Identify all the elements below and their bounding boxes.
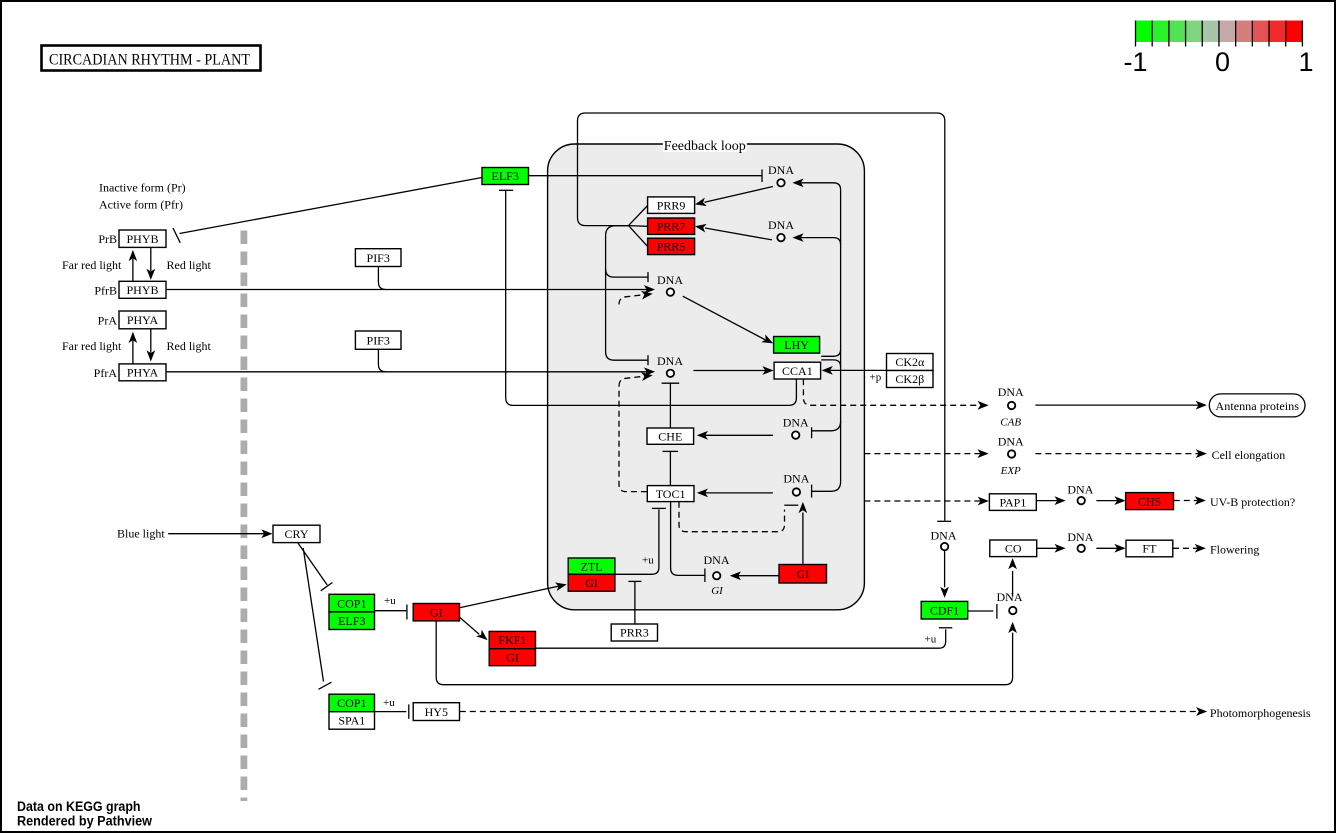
svg-text:DNA: DNA	[657, 354, 683, 368]
svg-text:GI: GI	[506, 650, 519, 664]
wire EXP DNA dashed to cell elongation	[1035, 453, 1203, 455]
inhibition bar above PRR3	[628, 580, 641, 582]
gene box SPA1	[329, 712, 375, 730]
wire GI to ZTL/GI complex	[460, 586, 560, 608]
wire CAB DNA to antenna proteins	[1035, 404, 1203, 406]
inhibition bar below ELF3	[499, 189, 513, 191]
svg-text:Rendered by Pathview: Rendered by Pathview	[17, 814, 152, 829]
svg-text:GI: GI	[585, 576, 598, 590]
svg-text:PIF3: PIF3	[367, 333, 390, 347]
wire GI long bottom to CDF1 DNA	[436, 621, 1012, 685]
wire GI activates TOC1 DNA	[802, 513, 804, 564]
gene box PRR9	[648, 197, 695, 214]
svg-text:Far red light: Far red light	[62, 339, 122, 353]
feedback loop gray region	[548, 144, 865, 610]
node DNA11 (FT promoter)	[1078, 545, 1085, 552]
node DNA13 (CO promoter)	[1009, 607, 1016, 614]
gene box PIF3 (upper)	[355, 249, 401, 267]
gene box GI (red, in loop)	[779, 565, 827, 584]
gene box GI in ZTL complex (red)	[568, 574, 615, 591]
inhibition bar at DNA7	[704, 569, 706, 583]
svg-text:Flowering: Flowering	[1210, 542, 1259, 556]
wire TOC1 dashed to DNA4	[619, 386, 647, 492]
wire CO to DNA11	[1037, 547, 1062, 549]
node antenna proteins	[1209, 394, 1305, 417]
gene box CHS (red)	[1126, 493, 1174, 510]
gene box COP1 (green, lower complex)	[329, 694, 375, 712]
node DNA6 (TOC1 promoter)	[793, 488, 800, 495]
wire FT dashed to flowering	[1173, 547, 1202, 549]
gene box PIF3 (lower)	[355, 331, 401, 349]
wire CHE inhibits DNA4	[669, 383, 671, 427]
svg-text:EXP: EXP	[1000, 465, 1021, 477]
svg-text:GI: GI	[796, 567, 809, 581]
gene box PAP1	[989, 494, 1036, 511]
node DNA4 (CCA1 promoter)	[667, 370, 674, 377]
gene box COP1 (green, upper complex)	[329, 594, 375, 612]
svg-text:+u: +u	[642, 555, 654, 567]
wire blue light to CRY	[168, 533, 269, 535]
wire DNA2 to PRR7	[705, 228, 772, 240]
gene box CDF1 (green)	[921, 601, 968, 619]
svg-text:DNA: DNA	[997, 590, 1023, 604]
gene box ELF3 (green)	[482, 168, 529, 185]
node DNA5 (CHE promoter)	[792, 431, 799, 438]
node DNA9 (EXP)	[1008, 450, 1015, 457]
svg-text:GI: GI	[711, 585, 724, 597]
inhibition tick above COP1/ELF3	[321, 583, 333, 591]
conversion arrows PrA/PfrA	[132, 341, 134, 364]
svg-text:CO: CO	[1005, 542, 1022, 556]
wire DNA4 to CCA1	[693, 370, 766, 372]
gene box FT	[1126, 540, 1173, 557]
wire GI to FKF1	[460, 617, 480, 634]
conversion arrows PrB/PfrB	[132, 259, 134, 281]
wire TOC1 inhibits CHE	[669, 452, 671, 486]
svg-text:PAP1: PAP1	[999, 495, 1026, 509]
gene box ELF3 (green, in complex)	[329, 612, 375, 630]
wire DNA6 to TOC1	[700, 492, 773, 494]
wire TOC1 dashed to DNA3	[619, 295, 642, 305]
svg-text:Photomorphogenesis: Photomorphogenesis	[1210, 706, 1311, 720]
wire corner to DNA5 inhibition	[812, 421, 841, 431]
svg-text:Feedback loop: Feedback loop	[664, 139, 746, 154]
svg-text:Inactive form (Pr): Inactive form (Pr)	[99, 181, 186, 195]
inhibition tick above COP1/SPA1	[319, 682, 332, 689]
node DNA7 (GI promoter)	[713, 572, 720, 579]
wire PRR3 inhibits ZTL/GI	[634, 582, 636, 624]
svg-text:PRR9: PRR9	[657, 198, 686, 212]
svg-text:PrA: PrA	[98, 314, 118, 328]
wire LHY corner (down branch)	[821, 360, 840, 367]
gene box CCA1	[774, 362, 821, 379]
svg-text:-1: -1	[1123, 47, 1147, 77]
svg-text:CHE: CHE	[658, 429, 682, 443]
inhibition bar at DNA5	[811, 427, 813, 438]
wire PIF3 joins PHYA line	[378, 349, 386, 372]
color key bar	[1136, 21, 1153, 43]
gene box CHE	[647, 428, 694, 444]
svg-text:GI: GI	[430, 605, 443, 619]
node DNA10 (CHS promoter)	[1078, 497, 1085, 504]
svg-text:Active form (Pfr): Active form (Pfr)	[99, 198, 183, 212]
wire ZTL/GI ubiquitinates TOC1	[615, 509, 659, 574]
wire CCA1 dashed to CAB DNA	[803, 379, 985, 405]
gene box PHYA (Pfr form)	[119, 364, 166, 381]
wire PHYA to DNA4	[166, 371, 648, 373]
svg-text:PHYB: PHYB	[126, 232, 158, 246]
svg-text:PRR5: PRR5	[657, 240, 686, 254]
svg-text:0: 0	[1215, 47, 1230, 77]
svg-text:CK2β: CK2β	[895, 372, 924, 386]
svg-text:DNA: DNA	[998, 385, 1024, 399]
svg-text:COP1: COP1	[337, 596, 366, 610]
gene box CK2beta	[887, 371, 934, 388]
gene box FKF1 (red)	[489, 631, 535, 648]
svg-text:COP1: COP1	[337, 696, 366, 710]
wire CHS dashed to UV-B protection	[1174, 500, 1202, 502]
inhibition bar at DNA4	[647, 355, 649, 365]
inhibition bar below DNA6	[784, 504, 798, 506]
svg-text:CDF1: CDF1	[930, 603, 959, 617]
wire HY5 dashed to photomorphogenesis	[460, 711, 1204, 713]
gene box TOC1	[647, 486, 694, 502]
svg-text:+u: +u	[383, 697, 395, 709]
wire LHY corner (up branch)	[821, 349, 840, 356]
svg-text:DNA: DNA	[768, 163, 794, 177]
inhibition tick near PHYB	[173, 228, 180, 243]
svg-text:DNA: DNA	[657, 273, 683, 287]
wire DNA11 to FT	[1096, 547, 1122, 549]
svg-text:PfrB: PfrB	[94, 284, 117, 298]
wire EXP dashed row from gray box	[864, 453, 985, 455]
gene box PHYB (Pr form)	[119, 230, 166, 247]
inhibition bar below CHE	[663, 450, 679, 452]
wire CRY inhibits COP1/SPA1	[303, 548, 323, 681]
gene box ZTL (green)	[568, 558, 615, 574]
inhibition bar below TOC1	[652, 507, 666, 509]
node DNA2 (PRR7 promoter)	[777, 234, 784, 241]
gene box PRR5 (red)	[648, 238, 695, 254]
node DNA1 (PRR9 promoter)	[777, 179, 784, 186]
svg-text:CRY: CRY	[284, 527, 308, 541]
svg-text:Cell elongation: Cell elongation	[1212, 448, 1286, 462]
svg-text:DNA: DNA	[783, 472, 809, 486]
gene box PRR7 (red)	[648, 218, 695, 234]
svg-text:DNA: DNA	[931, 529, 957, 543]
inhibition bar at HY5	[408, 704, 410, 718]
wire CDF1 inhibits DNA13	[968, 610, 993, 612]
svg-text:CAB: CAB	[1000, 417, 1021, 429]
wire PHYB to DNA3	[166, 289, 648, 291]
svg-text:+u: +u	[925, 634, 937, 646]
inhibition bar below CDF1	[939, 627, 952, 629]
gene box CK2alpha	[887, 354, 934, 371]
svg-text:DNA: DNA	[998, 434, 1024, 448]
svg-text:DNA: DNA	[704, 553, 730, 567]
svg-text:TOC1: TOC1	[656, 487, 686, 501]
inhibition bar above CHE	[662, 382, 680, 384]
inhibition bar at CDF1 DNA	[937, 520, 951, 522]
svg-text:DNA: DNA	[1067, 482, 1093, 496]
feedback loop label	[663, 138, 747, 152]
svg-text:1: 1	[1298, 47, 1313, 77]
svg-text:Red light: Red light	[167, 258, 212, 272]
svg-text:FT: FT	[1142, 542, 1157, 556]
svg-text:LHY: LHY	[784, 338, 809, 352]
svg-text:ZTL: ZTL	[581, 559, 603, 573]
svg-text:CCA1: CCA1	[782, 364, 813, 378]
wire big loop from PRR genes over top to CDF1 DNA	[578, 113, 945, 521]
gene box GI (red, FKF1 complex)	[489, 649, 535, 666]
svg-text:PfrA: PfrA	[94, 366, 118, 380]
inhibition bar at DNA6	[811, 485, 813, 498]
svg-text:Blue light: Blue light	[117, 527, 165, 541]
svg-text:PHYA: PHYA	[127, 313, 159, 327]
svg-text:+p: +p	[870, 372, 882, 384]
svg-text:DNA: DNA	[783, 415, 809, 429]
inhibition bar at DNA1	[761, 169, 763, 182]
wire CK2 to CCA1 phosphorylation	[824, 369, 886, 371]
wire PRR fan to CCA1-DNA inhibition	[606, 226, 648, 361]
svg-text:FKF1: FKF1	[498, 633, 526, 647]
wire TOC1 inhibits GI DNA	[671, 502, 705, 576]
gene box GI (red, cytosol)	[413, 604, 459, 621]
svg-text:PRR3: PRR3	[620, 626, 649, 640]
gene box LHY (green)	[774, 337, 820, 354]
svg-text:DNA: DNA	[1067, 530, 1093, 544]
wire COP1/SPA1 inhibits HY5	[375, 711, 407, 713]
wire PAP1 to DNA10	[1037, 500, 1062, 502]
wire DNA1 to PRR9	[705, 187, 773, 203]
wire COP1/ELF3 inhibits GI	[375, 610, 407, 612]
gene box PHYA (Pr form)	[119, 311, 166, 329]
svg-text:Far red light: Far red light	[62, 258, 122, 272]
svg-text:UV-B protection?: UV-B protection?	[1210, 495, 1295, 509]
svg-text:PHYB: PHYB	[126, 283, 158, 297]
node DNA3 (LHY promoter)	[667, 288, 674, 295]
wire CCA1/LHY to DNA1,DNA2 and DNA5,DNA6	[840, 190, 842, 482]
wire DNA3 diagonal to LHY	[683, 296, 766, 340]
fan lines from junction to PRR9 PRR7 PRR5	[629, 206, 648, 226]
svg-text:PRR7: PRR7	[657, 219, 686, 233]
gene box CRY	[273, 525, 320, 542]
node DNA12 (CDF1 promoter)	[941, 543, 948, 550]
wire PAP1 dashed row from gray box	[864, 500, 985, 502]
svg-text:HY5: HY5	[425, 705, 448, 719]
title box CIRCADIAN RHYTHM - PLANT	[42, 46, 261, 71]
svg-text:+u: +u	[384, 595, 396, 607]
gene box PHYB (Pfr form)	[119, 281, 166, 298]
svg-text:PrB: PrB	[98, 232, 117, 246]
svg-text:ELF3: ELF3	[338, 614, 365, 628]
inhibition bar at DNA13	[996, 604, 998, 619]
svg-text:DNA: DNA	[768, 218, 794, 232]
wire DNA12 to CDF1	[944, 551, 946, 587]
svg-text:PHYA: PHYA	[127, 366, 159, 380]
wire TOC1 dashed self-inhibition	[679, 502, 785, 532]
wire GI gene to DNA7	[733, 575, 779, 577]
gene box CO	[990, 540, 1037, 557]
gene box HY5	[413, 703, 459, 721]
svg-text:ELF3: ELF3	[492, 169, 519, 183]
inhibition bar at DNA3	[647, 272, 649, 282]
membrane gray dashed bar	[240, 231, 247, 802]
inhibition bar at GI	[406, 605, 408, 620]
gene box PRR3	[611, 624, 657, 641]
wire CRY inhibits COP1/ELF3	[298, 543, 327, 585]
wire ELF3 to DNA1 inhibition	[529, 175, 762, 177]
wire DNA10 to CHS	[1096, 500, 1122, 502]
svg-text:CIRCADIAN RHYTHM - PLANT: CIRCADIAN RHYTHM - PLANT	[49, 52, 250, 69]
svg-text:Antenna proteins: Antenna proteins	[1215, 399, 1299, 413]
wire corner to DNA6 inhibition	[812, 482, 841, 492]
wire FKF1/GI ubiquitinates CDF1	[536, 629, 946, 648]
svg-text:PIF3: PIF3	[367, 251, 390, 265]
wire PIF3 joins PHYB line	[378, 267, 386, 290]
svg-text:CHS: CHS	[1138, 494, 1161, 508]
svg-text:CK2α: CK2α	[895, 355, 925, 369]
svg-text:Data on KEGG graph: Data on KEGG graph	[17, 799, 141, 814]
wire DNA13 activates CO	[1012, 571, 1014, 596]
node DNA8 (CAB)	[1008, 402, 1015, 409]
svg-text:Red light: Red light	[167, 339, 212, 353]
wire ELF3 diagonal inhibition to PHYB	[180, 178, 483, 234]
wire branch to LHY-DNA inhibition	[606, 269, 648, 277]
wire DNA5 to CHE	[700, 434, 773, 436]
svg-text:SPA1: SPA1	[338, 714, 365, 728]
